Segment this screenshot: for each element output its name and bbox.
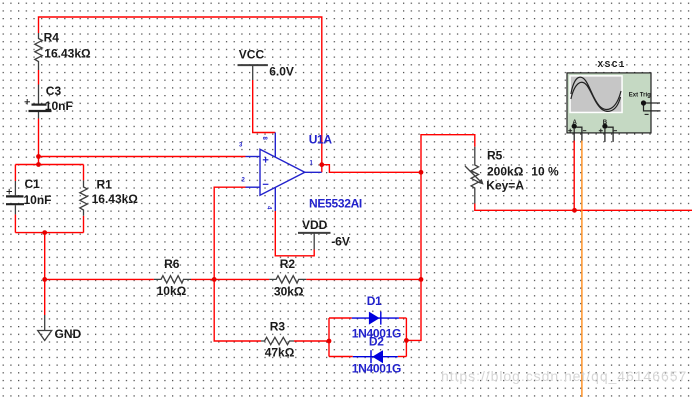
svg-text:A: A [573, 120, 578, 126]
svg-text:R6: R6 [164, 257, 180, 271]
svg-text:10nF: 10nF [45, 99, 73, 113]
svg-text:D2: D2 [369, 335, 384, 349]
svg-text:200kΩ: 200kΩ [487, 165, 524, 179]
svg-text:R4: R4 [44, 30, 60, 44]
svg-text:16.43kΩ: 16.43kΩ [92, 192, 139, 206]
svg-text:-6V: -6V [331, 235, 350, 249]
svg-text:B: B [603, 120, 608, 126]
svg-text:NE5532AI: NE5532AI [309, 197, 362, 211]
svg-text:VCC: VCC [239, 48, 265, 62]
svg-text:30kΩ: 30kΩ [274, 285, 304, 299]
svg-text:1N4001G: 1N4001G [352, 362, 401, 376]
svg-text:GND: GND [55, 327, 82, 341]
svg-text:Key=A: Key=A [486, 179, 524, 193]
svg-text:XSC1: XSC1 [598, 59, 626, 70]
svg-text:U1A: U1A [309, 133, 333, 147]
svg-text:16.43kΩ: 16.43kΩ [44, 47, 91, 61]
svg-text:10kΩ: 10kΩ [157, 284, 187, 298]
svg-text:D1: D1 [367, 294, 382, 308]
svg-text:R5: R5 [487, 149, 503, 163]
svg-text:VDD: VDD [302, 218, 328, 232]
svg-text:R3: R3 [270, 320, 286, 334]
svg-text:R2: R2 [280, 257, 296, 271]
svg-text:6.0V: 6.0V [269, 65, 294, 79]
svg-text:R1: R1 [97, 178, 113, 192]
svg-text:Ext Trig: Ext Trig [629, 92, 651, 98]
svg-text:10nF: 10nF [24, 193, 52, 207]
svg-text:C3: C3 [46, 84, 62, 98]
svg-text:47kΩ: 47kΩ [265, 346, 295, 360]
svg-text:10 %: 10 % [531, 165, 559, 179]
svg-text:C1: C1 [25, 177, 41, 191]
